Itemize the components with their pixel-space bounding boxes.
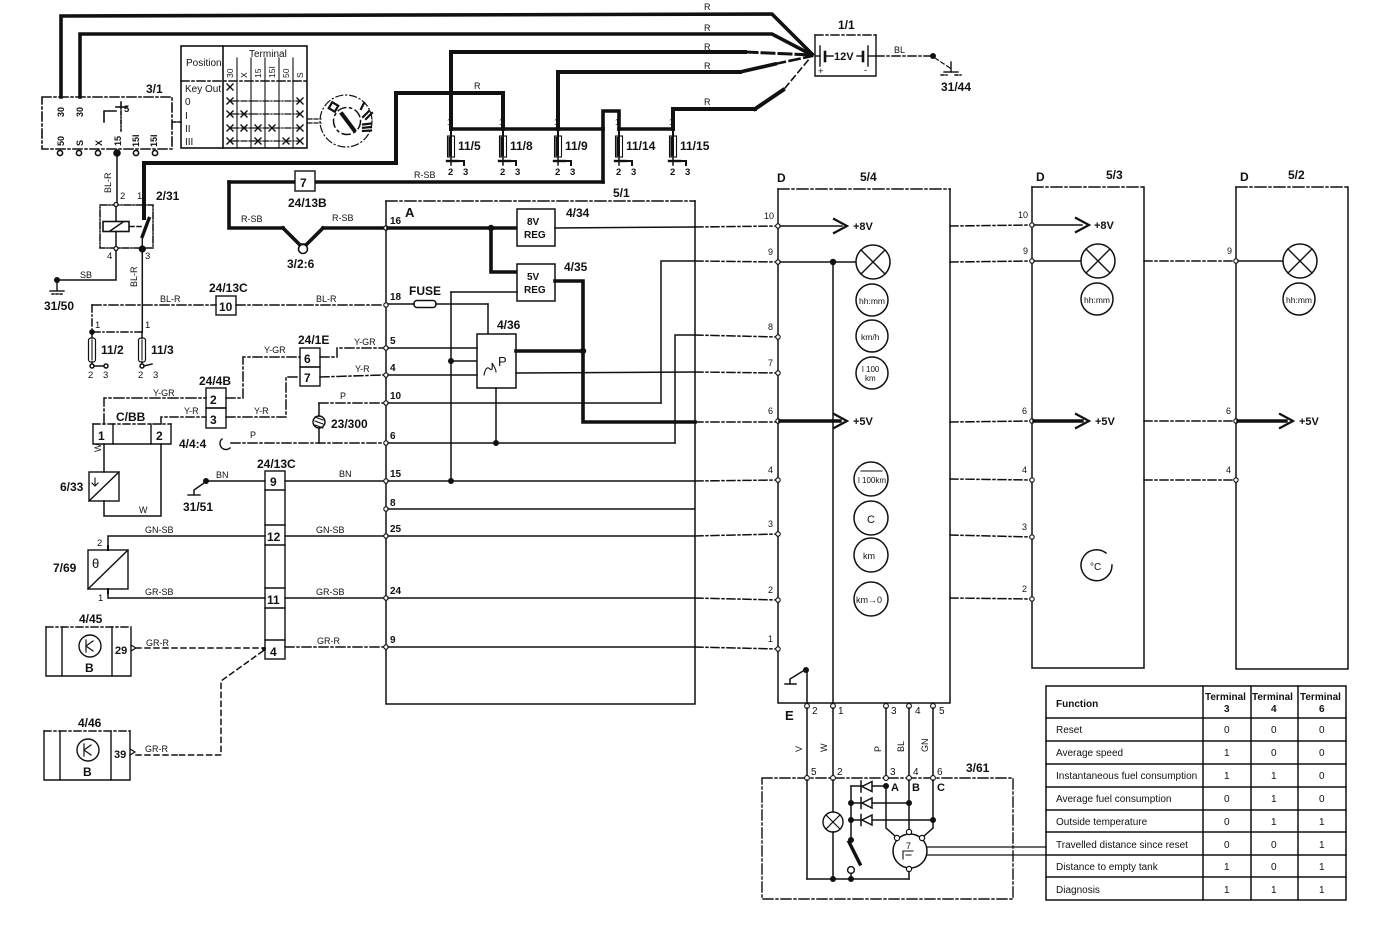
svg-text:+: + — [818, 66, 824, 77]
svg-text:Average speed: Average speed — [1056, 748, 1123, 759]
wire W 5/4 to 3/61 — [832, 708, 834, 778]
svg-text:+8V: +8V — [1094, 220, 1115, 232]
svg-text:GR-SB: GR-SB — [145, 587, 174, 597]
svg-text:S: S — [75, 140, 85, 146]
8V regulator 4/34 — [517, 209, 555, 246]
wire pin9 inside — [388, 646, 695, 648]
connector 24/4B — [206, 388, 226, 428]
svg-text:Function: Function — [1056, 699, 1098, 710]
svg-text:1: 1 — [98, 429, 105, 443]
svg-text:11/2: 11/2 — [101, 343, 124, 357]
svg-text:18: 18 — [390, 292, 402, 303]
svg-text:GN-SB: GN-SB — [145, 525, 174, 535]
wire pin5 Y-GR inside — [388, 347, 477, 349]
wire SB relay pin4 to ground — [57, 251, 116, 281]
svg-text:C: C — [867, 514, 875, 526]
svg-text:GN: GN — [920, 739, 930, 753]
connector strip 24/13C — [265, 471, 285, 659]
svg-text:6: 6 — [304, 352, 311, 366]
svg-text:4/35: 4/35 — [564, 260, 588, 274]
wire P to motor — [886, 786, 895, 836]
wire Y-GR 24/1E to 5/1 pin5 — [320, 348, 383, 357]
svg-text:10: 10 — [390, 391, 402, 402]
svg-text:E: E — [785, 708, 794, 723]
svg-text:8V: 8V — [527, 217, 540, 228]
svg-text:12V: 12V — [834, 51, 854, 63]
5/4 left pin numbers — [764, 211, 774, 644]
5/4 left pin circles — [776, 224, 780, 651]
svg-text:24: 24 — [390, 586, 402, 597]
ignition switch 3/1 — [42, 82, 172, 149]
svg-text:2: 2 — [97, 538, 102, 549]
table X marks — [227, 84, 303, 144]
svg-text:4: 4 — [107, 251, 112, 262]
svg-text:1: 1 — [554, 118, 559, 127]
svg-text:10: 10 — [764, 211, 774, 221]
wire pin10 P inside — [388, 402, 661, 404]
svg-text:0: 0 — [1271, 725, 1277, 736]
wire BL-R relay pin3 down — [141, 251, 143, 332]
svg-text:15: 15 — [390, 469, 402, 480]
svg-text:0: 0 — [1224, 817, 1230, 828]
svg-text:W: W — [139, 505, 148, 515]
svg-text:l 100: l 100 — [862, 365, 880, 374]
svg-text:1: 1 — [1224, 771, 1230, 782]
wire GN-SB 7/69 to 5/1 pin25 — [108, 536, 265, 546]
svg-text:31/44: 31/44 — [941, 80, 971, 94]
wire GR-R 4/45 to 24/13C — [136, 647, 265, 649]
svg-text:R: R — [704, 97, 711, 107]
svg-text:6: 6 — [1319, 704, 1325, 715]
svg-text:+8V: +8V — [853, 221, 874, 233]
3/61 top pin circles — [805, 776, 936, 781]
wire BL-R switch to relay — [116, 155, 118, 203]
svg-text:hh:mm: hh:mm — [1084, 295, 1110, 305]
svg-text:1: 1 — [1224, 748, 1230, 759]
svg-text:X: X — [239, 72, 249, 78]
svg-text:1: 1 — [838, 706, 844, 717]
svg-text:3: 3 — [1224, 704, 1230, 715]
panel lamp in 3/61 — [823, 812, 843, 832]
diode bus — [850, 786, 852, 839]
wire pin18 BL-R with internal fuse — [388, 303, 414, 305]
svg-text:FUSE: FUSE — [409, 284, 441, 298]
wire Y-GR C/BB to 24/4B — [104, 398, 206, 424]
svg-text:-: - — [864, 65, 867, 76]
svg-text:P: P — [250, 430, 256, 440]
svg-text:5/2: 5/2 — [1288, 168, 1305, 182]
svg-text:2: 2 — [555, 167, 560, 178]
clock symbol 5/4 — [856, 284, 888, 316]
svg-text:C: C — [937, 782, 945, 794]
svg-text:6: 6 — [1226, 406, 1231, 416]
svg-text:5/4: 5/4 — [860, 170, 877, 184]
svg-text:3: 3 — [515, 167, 520, 178]
svg-text:24/13B: 24/13B — [288, 196, 327, 210]
mode switch in 3/61 — [848, 837, 860, 882]
svg-text:Terminal: Terminal — [1252, 692, 1293, 703]
wire R fuse 11/15 feed — [673, 90, 783, 129]
svg-text:BL-R: BL-R — [103, 172, 113, 193]
svg-text:A: A — [405, 205, 415, 220]
clock module 4/45 — [46, 627, 131, 676]
svg-text:4: 4 — [768, 465, 773, 475]
inst fuel symbol 5/4 — [856, 357, 888, 389]
svg-text:3/1: 3/1 — [146, 82, 163, 96]
stub 3/1 to table — [173, 121, 181, 123]
svg-text:B: B — [85, 661, 94, 675]
svg-text:4: 4 — [1226, 465, 1231, 475]
battery 1/1 — [815, 18, 876, 77]
svg-text:5: 5 — [124, 104, 130, 115]
svg-text:3: 3 — [768, 519, 773, 529]
svg-text:2: 2 — [156, 429, 163, 443]
wire uP bottom to pin6 line — [495, 388, 497, 443]
svg-text:1: 1 — [1271, 817, 1277, 828]
clock symbol 5/3 — [1081, 283, 1113, 315]
ground 31/50 — [50, 282, 64, 294]
svg-text:D: D — [1036, 170, 1045, 184]
svg-text:R-SB: R-SB — [414, 170, 436, 180]
wire P 4/4:4 to 5/1 pin6 — [231, 442, 383, 444]
instrument module 5/2 — [1236, 168, 1348, 669]
wire lamp feed to bottom pin1 — [832, 262, 834, 703]
svg-text:BN: BN — [216, 470, 229, 480]
wire BL to motor — [908, 780, 910, 829]
svg-text:Diagnosis: Diagnosis — [1056, 885, 1100, 896]
wire pin4 Y-R inside — [388, 374, 477, 376]
svg-text:P: P — [340, 391, 346, 401]
svg-text:3: 3 — [103, 370, 108, 381]
svg-text:11/15: 11/15 — [680, 139, 710, 153]
svg-text:11/14: 11/14 — [626, 139, 656, 153]
svg-text:+5V: +5V — [1095, 416, 1116, 428]
svg-text:1: 1 — [669, 118, 674, 127]
wire Y-GR 24/4B to 24/1E — [226, 357, 300, 398]
svg-text:5/1: 5/1 — [613, 186, 630, 200]
svg-text:+5V: +5V — [1299, 416, 1320, 428]
svg-text:Y-R: Y-R — [355, 364, 370, 374]
wire to fuse 11/2 — [92, 305, 142, 332]
function table — [1046, 686, 1346, 900]
lamp 5/3 — [1034, 244, 1115, 278]
svg-text:Y-GR: Y-GR — [264, 345, 286, 355]
svg-text:Terminal: Terminal — [1300, 692, 1341, 703]
reset symbol 5/4 — [854, 582, 888, 616]
svg-text:Average fuel consumption: Average fuel consumption — [1056, 794, 1171, 805]
+5V arrow 5/4 — [780, 414, 874, 428]
fuse symbol inside 5/1 — [414, 301, 436, 308]
wire pin8 inside — [388, 508, 694, 510]
svg-text:R: R — [704, 2, 711, 12]
svg-text:7: 7 — [304, 371, 311, 385]
5/1 pin circles — [384, 226, 388, 649]
svg-text:2: 2 — [812, 706, 818, 717]
svg-text:BL: BL — [894, 45, 905, 55]
svg-text:11/8: 11/8 — [510, 139, 533, 153]
instrument module 5/3 — [1032, 168, 1144, 668]
svg-text:°C: °C — [1090, 562, 1101, 573]
svg-text:Terminal: Terminal — [1205, 692, 1246, 703]
clock symbol 5/2 — [1283, 283, 1315, 315]
svg-text:0: 0 — [1224, 794, 1230, 805]
svg-text:0: 0 — [1319, 794, 1325, 805]
interconnect 5/3 to 5/2 — [1144, 261, 1236, 480]
diode 1 — [851, 781, 886, 792]
svg-text:REG: REG — [524, 285, 546, 296]
svg-text:B: B — [912, 782, 920, 794]
svg-text:BL: BL — [896, 741, 906, 752]
svg-text:12: 12 — [267, 530, 281, 544]
svg-text:BN: BN — [339, 469, 352, 479]
svg-text:4/45: 4/45 — [79, 612, 103, 626]
svg-text:0: 0 — [1319, 771, 1325, 782]
wire GR-R 4/46 branch — [178, 651, 263, 755]
wire BL-R to 24/13C and 5/1 pin18 — [92, 304, 383, 306]
speed symbol 5/4 — [856, 320, 888, 352]
clock module 4/46 — [44, 731, 130, 780]
svg-text:24/4B: 24/4B — [199, 374, 231, 388]
+5V arrow 5/2 — [1238, 414, 1320, 428]
svg-text:GR-SB: GR-SB — [316, 587, 345, 597]
wire BN to 5/1 pin15 — [285, 480, 383, 482]
svg-text:1: 1 — [1319, 817, 1325, 828]
svg-text:2: 2 — [768, 585, 773, 595]
svg-text:10: 10 — [219, 300, 233, 314]
wire fused feed branches — [451, 292, 517, 481]
lamp 5/2 — [1238, 244, 1317, 278]
wire P 5/4 to 3/61 — [885, 708, 887, 778]
wire R-SB bus — [229, 129, 603, 245]
svg-text:7/69: 7/69 — [53, 561, 77, 575]
distance symbol 5/4 — [854, 538, 888, 572]
temp symbol 5/3 — [1081, 550, 1112, 581]
terminal position table — [181, 46, 307, 148]
svg-text:7: 7 — [768, 358, 773, 368]
gauge needle lines to table — [927, 846, 1046, 848]
wire lamp branch — [832, 780, 834, 812]
svg-text:BL-R: BL-R — [316, 294, 337, 304]
svg-text:GR-R: GR-R — [317, 636, 340, 646]
svg-text:0: 0 — [1319, 725, 1325, 736]
wire V inside 3/61 — [806, 780, 808, 879]
svg-text:4: 4 — [1271, 704, 1277, 715]
svg-text:5: 5 — [811, 767, 817, 778]
svg-text:24/13C: 24/13C — [209, 281, 248, 295]
svg-text:2: 2 — [500, 167, 505, 178]
svg-text:6: 6 — [937, 767, 943, 778]
svg-text:1: 1 — [1224, 885, 1230, 896]
svg-text:1: 1 — [1271, 794, 1277, 805]
temp sensor 7/69 — [88, 550, 128, 589]
svg-text:Key Out: Key Out — [185, 84, 221, 95]
svg-text:2: 2 — [1022, 584, 1027, 594]
svg-text:3: 3 — [570, 167, 575, 178]
interconnect 5/1 to 5/4 — [695, 226, 778, 649]
svg-text:3: 3 — [890, 767, 896, 778]
svg-text:hh:mm: hh:mm — [859, 296, 885, 306]
svg-text:R: R — [474, 81, 481, 91]
svg-text:hh:mm: hh:mm — [1286, 295, 1312, 305]
ground point 23/300 — [313, 416, 325, 428]
terminal 5 symbol inside 3/1 — [104, 102, 130, 131]
fuel level sensor 6/33 — [89, 472, 119, 501]
wire BL battery to ground 31/44 — [876, 55, 931, 57]
svg-text:3: 3 — [463, 167, 468, 178]
svg-text:Travelled distance since reset: Travelled distance since reset — [1056, 840, 1188, 851]
svg-text:3: 3 — [210, 413, 217, 427]
svg-text:1: 1 — [145, 320, 150, 331]
svg-text:km: km — [863, 551, 875, 561]
svg-text:11/9: 11/9 — [565, 139, 588, 153]
svg-text:30: 30 — [75, 107, 85, 117]
fuse 11/5 — [447, 129, 464, 165]
svg-text:9: 9 — [390, 635, 396, 646]
svg-text:0: 0 — [1224, 840, 1230, 851]
svg-text:1: 1 — [98, 593, 103, 604]
ground 31/51 with BN wire — [203, 478, 209, 484]
wire W 6/33 to C/BB pin2 — [104, 444, 161, 516]
svg-text:1: 1 — [137, 191, 142, 202]
svg-text:S: S — [295, 72, 305, 78]
svg-text:15I: 15I — [131, 134, 141, 147]
wire GN 5/4 to 3/61 — [932, 708, 934, 778]
svg-text:D: D — [777, 171, 786, 185]
wire uP thick to 5V rail — [516, 349, 583, 353]
svg-text:3/2:6: 3/2:6 — [287, 257, 315, 271]
wire pin16 R-SB inside 5/1 — [388, 226, 517, 230]
wire R fuse 11/5 feed — [451, 52, 745, 129]
svg-text:15I: 15I — [149, 134, 159, 147]
fuse 11/8 — [499, 129, 516, 165]
svg-text:4/34: 4/34 — [566, 206, 590, 220]
+8V arrow 5/3 — [1034, 218, 1115, 232]
wire pin25 inside — [388, 535, 695, 537]
svg-text:1: 1 — [615, 118, 620, 127]
svg-text:31/50: 31/50 — [44, 299, 74, 313]
svg-text:GN-SB: GN-SB — [316, 525, 345, 535]
svg-text:GR-R: GR-R — [145, 744, 168, 754]
svg-text:0: 0 — [1319, 748, 1325, 759]
svg-text:4/46: 4/46 — [78, 716, 102, 730]
wire Y-R 24/1E to 5/1 pin4 — [320, 375, 383, 377]
wire C/BB pin1 to 6/33 — [103, 444, 105, 472]
svg-text:5: 5 — [390, 336, 396, 347]
wire GR-SB 7/69 to 5/1 pin24 — [108, 593, 265, 598]
svg-text:4/36: 4/36 — [497, 318, 521, 332]
wire P branch to pin10 via 23/300 — [319, 403, 383, 443]
svg-text:2/31: 2/31 — [156, 189, 180, 203]
svg-text:SB: SB — [80, 270, 92, 280]
svg-text:0: 0 — [1224, 725, 1230, 736]
svg-text:REG: REG — [524, 230, 546, 241]
svg-text:Distance to empty tank: Distance to empty tank — [1056, 862, 1159, 873]
svg-text:Instantaneous fuel consumption: Instantaneous fuel consumption — [1056, 771, 1197, 782]
svg-text:W: W — [819, 743, 829, 752]
wire 8V REG output — [555, 227, 695, 228]
connector 24/13C (10) — [216, 296, 236, 315]
svg-text:1: 1 — [447, 118, 452, 127]
wire Y-R 24/4B to 24/1E — [226, 377, 300, 417]
svg-text:6: 6 — [768, 406, 773, 416]
svg-text:III: III — [185, 137, 193, 148]
fuse 11/9 — [554, 129, 571, 165]
svg-text:11/3: 11/3 — [151, 343, 174, 357]
fuse 11/14 — [615, 129, 632, 165]
svg-text:4: 4 — [1022, 465, 1027, 475]
svg-text:4: 4 — [390, 363, 396, 374]
svg-text:Terminal: Terminal — [249, 49, 287, 60]
wire 30 (a) to battery — [61, 14, 812, 97]
svg-text:W: W — [93, 443, 103, 452]
svg-text:3/61: 3/61 — [966, 761, 990, 775]
svg-text:9: 9 — [1023, 246, 1028, 256]
svg-text:5V: 5V — [527, 272, 540, 283]
svg-text:9: 9 — [1227, 246, 1232, 256]
svg-text:R: R — [704, 23, 711, 33]
svg-text:BL-R: BL-R — [160, 294, 181, 304]
svg-text:1/1: 1/1 — [838, 18, 855, 32]
svg-text:2: 2 — [448, 167, 453, 178]
svg-text:6: 6 — [1022, 406, 1027, 416]
svg-text:8: 8 — [768, 322, 773, 332]
5V regulator 4/35 — [517, 264, 555, 301]
svg-text:Y-GR: Y-GR — [153, 388, 175, 398]
wire GN to motor — [932, 780, 934, 820]
reset switch in 5/4 — [785, 667, 809, 703]
svg-text:l 100km: l 100km — [858, 476, 886, 485]
svg-text:B: B — [83, 765, 92, 779]
svg-text:D: D — [1240, 170, 1249, 184]
svg-text:A: A — [891, 782, 899, 794]
+5V arrow 5/3 — [1034, 414, 1116, 428]
svg-text:GR-R: GR-R — [146, 638, 169, 648]
svg-text:Y-R: Y-R — [254, 406, 269, 416]
svg-text:2: 2 — [138, 370, 143, 381]
svg-text:Position: Position — [186, 58, 222, 69]
control unit 5/1 — [386, 186, 695, 704]
svg-text:3: 3 — [1022, 522, 1027, 532]
svg-text:II: II — [185, 124, 191, 135]
svg-text:2: 2 — [616, 167, 621, 178]
wire R fuse 11/9 feed — [558, 72, 740, 129]
wire pin6 P inside — [388, 442, 675, 444]
svg-text:16: 16 — [390, 216, 402, 227]
svg-text:θ: θ — [92, 556, 99, 571]
gauge unit 3/61 — [762, 761, 1013, 899]
svg-text:24/1E: 24/1E — [298, 333, 329, 347]
wire V 5/4 to 3/61 — [806, 708, 808, 778]
fuse 11/3 — [139, 332, 153, 368]
svg-text:0: 0 — [185, 97, 191, 108]
fuse 11/15 — [669, 129, 686, 165]
svg-text:6: 6 — [390, 431, 396, 442]
svg-text:31/51: 31/51 — [183, 500, 213, 514]
svg-text:2: 2 — [210, 393, 217, 407]
svg-text:3: 3 — [685, 167, 690, 178]
svg-text:5/3: 5/3 — [1106, 168, 1123, 182]
svg-text:Y-GR: Y-GR — [354, 337, 376, 347]
svg-text:1: 1 — [768, 634, 773, 644]
svg-text:1: 1 — [1319, 862, 1325, 873]
svg-text:4: 4 — [915, 706, 921, 717]
svg-text:X: X — [94, 140, 104, 146]
svg-text:Y-R: Y-R — [184, 406, 199, 416]
svg-text:1: 1 — [1319, 885, 1325, 896]
svg-text:9: 9 — [270, 475, 277, 489]
svg-text:V: V — [794, 746, 804, 752]
pulse unit 4/36 — [477, 334, 516, 388]
